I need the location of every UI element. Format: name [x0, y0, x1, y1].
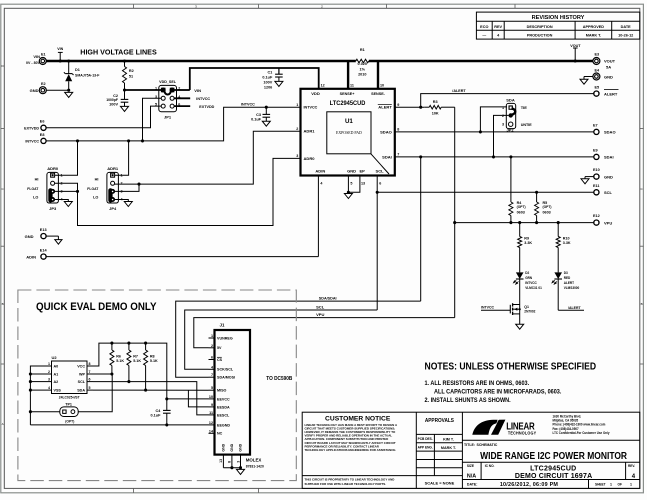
J1 pin 11 EESCL [209, 414, 215, 416]
svg-text:FLOAT: FLOAT [27, 187, 39, 191]
terminal E11 SCL [594, 190, 599, 195]
high voltage bus wire [46, 60, 356, 62]
connector J1 [215, 330, 251, 455]
svg-text:OF: OF [618, 482, 622, 486]
svg-text:D1: D1 [75, 68, 80, 72]
svg-text:NC: NC [217, 432, 223, 436]
svg-text:GND: GND [239, 443, 243, 451]
jumper JP3 ADR0 [47, 172, 59, 203]
svg-text:11: 11 [209, 411, 213, 415]
svg-text:VCC: VCC [77, 364, 85, 368]
svg-text:2010: 2010 [358, 73, 366, 77]
svg-text:SCL: SCL [316, 304, 325, 309]
svg-text:VLMS3000: VLMS3000 [564, 286, 580, 290]
svg-text:ADR1: ADR1 [107, 166, 119, 171]
svg-text:U2: U2 [52, 355, 58, 360]
svg-text:VLMC31 01: VLMC31 01 [525, 286, 542, 290]
svg-text:SENSE-: SENSE- [371, 91, 385, 96]
svg-text:INTVCC: INTVCC [196, 96, 210, 101]
terminal E1 VIN [39, 58, 46, 65]
svg-text:7: 7 [89, 370, 91, 374]
J1 pin 9 EESDA [209, 406, 215, 408]
svg-text:TO DC590B: TO DC590B [266, 376, 292, 383]
svg-text:(OPT): (OPT) [65, 419, 74, 423]
SCL row [376, 176, 378, 311]
svg-text:SIZE: SIZE [467, 464, 474, 468]
svg-text:E5: E5 [595, 85, 600, 89]
svg-text:EESDA: EESDA [217, 405, 230, 409]
svg-text:24LC025-I/ST: 24LC025-I/ST [59, 395, 81, 399]
svg-text:HIGH VOLTAGE LINES: HIGH VOLTAGE LINES [80, 47, 157, 56]
SDA/SDAI rail [176, 301, 421, 377]
svg-text:INTVCC: INTVCC [525, 281, 537, 285]
svg-text:9: 9 [211, 403, 213, 407]
svg-text:GND: GND [604, 74, 613, 79]
svg-text:10/26/2012, 06:09 PM: 10/26/2012, 06:09 PM [500, 482, 559, 488]
svg-text:/ALERT: /ALERT [568, 306, 581, 310]
jumper JP1 VDD_SEL [159, 85, 177, 111]
terminal E9 SDAI [594, 154, 599, 159]
svg-text:E1: E1 [41, 53, 46, 57]
svg-text:QUICK EVAL DEMO ONLY: QUICK EVAL DEMO ONLY [36, 301, 157, 313]
svg-text:TECHNOLOGY: TECHNOLOGY [508, 430, 536, 435]
svg-text:2: 2 [211, 344, 213, 348]
svg-text:SDAI: SDAI [382, 154, 392, 159]
svg-text:—: — [482, 34, 486, 38]
resistor R10 3.3K [557, 221, 560, 224]
svg-text:GND: GND [347, 169, 356, 174]
svg-text:5: 5 [211, 386, 213, 390]
svg-text:B: B [2, 302, 4, 306]
svg-text:0V - 80V: 0V - 80V [26, 61, 40, 65]
svg-text:ALL CAPACITORS ARE IN MICROFAR: ALL CAPACITORS ARE IN MICROFARADS, 0603. [434, 389, 562, 395]
test point TP1 (OPT) [60, 407, 78, 417]
svg-text:JP2: JP2 [506, 127, 514, 132]
svg-text:CS: CS [217, 358, 223, 362]
IC U2 24LC025-I/ST [52, 361, 88, 394]
EEVCC row [167, 398, 209, 400]
svg-text:R1: R1 [360, 48, 365, 52]
VPU rail [194, 318, 455, 348]
svg-text:SDAO: SDAO [604, 130, 616, 135]
resistor R6 5.1K [111, 343, 113, 350]
svg-text:1: 1 [211, 334, 213, 338]
svg-text:VIN: VIN [57, 47, 63, 51]
svg-text:HI: HI [35, 178, 39, 182]
op-amp U1 LTC2945CUD [301, 89, 395, 176]
JP1 shunt pins 1-2 [161, 88, 166, 93]
svg-text:R8: R8 [150, 354, 155, 358]
svg-text:SCL: SCL [376, 169, 385, 174]
svg-text:HI: HI [95, 178, 99, 182]
svg-text:1206: 1206 [264, 85, 272, 89]
svg-text:/ALERT: /ALERT [452, 88, 466, 93]
svg-text:ADIN: ADIN [315, 169, 325, 174]
svg-text:IC NO.: IC NO. [485, 464, 495, 468]
svg-text:SMAJ75A-13-F: SMAJ75A-13-F [75, 73, 100, 77]
svg-text:REV: REV [494, 25, 502, 29]
J1 pin 5 MISO [209, 389, 215, 391]
resistor R5 (OPT) 0603 [536, 192, 538, 202]
SDA row to MISO / EESDA [93, 389, 209, 391]
svg-text:MARK T.: MARK T. [586, 34, 601, 38]
svg-text:REV.: REV. [628, 464, 635, 468]
svg-text:TIE: TIE [521, 105, 528, 110]
svg-text:GND: GND [30, 88, 39, 93]
svg-text:5A: 5A [606, 65, 611, 70]
resistor R3 10K [429, 105, 441, 109]
svg-text:0.1uF: 0.1uF [262, 75, 273, 79]
JP1 pin5 to EXTVDD/E6 [46, 106, 161, 128]
J1 pin 10 EEVCC [209, 398, 215, 400]
terminal E14 ADIN [41, 254, 46, 259]
svg-text:INTVCC: INTVCC [481, 305, 494, 309]
svg-text:DATE: DATE [621, 25, 632, 29]
JP2 pin2 to SDAI row [494, 115, 509, 156]
svg-text:VOUT: VOUT [604, 59, 616, 64]
svg-text:0.1uF: 0.1uF [150, 413, 161, 417]
svg-text:5: 5 [89, 386, 91, 390]
jumper JP2 SDA TIE/UNTIE [506, 103, 515, 128]
U1 ADIN pin4 riser [317, 176, 319, 257]
svg-text:10: 10 [380, 83, 384, 87]
svg-text:EEGND: EEGND [217, 423, 230, 427]
svg-text:3: 3 [502, 123, 504, 127]
svg-text:FLOAT: FLOAT [87, 187, 99, 191]
svg-text:GND: GND [222, 443, 226, 451]
svg-text:INTVCC: INTVCC [25, 140, 39, 144]
svg-text:4: 4 [48, 386, 50, 390]
svg-text:INTVCC: INTVCC [241, 101, 255, 106]
svg-text:E10: E10 [593, 168, 600, 172]
svg-text:INTVCC: INTVCC [304, 104, 318, 109]
svg-text:5.1K: 5.1K [133, 359, 141, 363]
svg-text:6: 6 [211, 356, 213, 360]
U2 left rail to EEGND [30, 366, 45, 425]
svg-text:VSS: VSS [54, 388, 62, 392]
svg-text:11: 11 [350, 83, 354, 87]
svg-text:REVISION HISTORY: REVISION HISTORY [532, 15, 585, 21]
Linear Technology logo [472, 420, 497, 435]
svg-text:R3: R3 [433, 100, 438, 104]
resistor R1 0.020 1% 2010 sense [356, 59, 369, 63]
JP1 pin3 to INTVCC rail [143, 98, 162, 141]
svg-text:CUSTOMER NOTICE: CUSTOMER NOTICE [325, 416, 391, 423]
svg-text:10K: 10K [432, 111, 439, 115]
svg-text:EP: EP [359, 169, 365, 174]
svg-text:LTC2945CUD: LTC2945CUD [530, 466, 576, 473]
svg-text:A: A [2, 422, 4, 426]
terminal E6 EXTVDD [41, 125, 46, 130]
ground [64, 202, 72, 207]
svg-text:SCK/SCL: SCK/SCL [217, 368, 234, 372]
svg-text:MISO: MISO [217, 388, 226, 392]
svg-text:JP1: JP1 [164, 115, 172, 120]
svg-text:SCALE = NONE: SCALE = NONE [425, 480, 455, 485]
svg-text:SENSE+: SENSE+ [340, 91, 355, 96]
svg-text:3.3K: 3.3K [524, 241, 532, 245]
svg-text:E7: E7 [593, 124, 598, 128]
svg-text:E13: E13 [40, 228, 47, 232]
svg-text:VDD_SEL: VDD_SEL [159, 80, 177, 84]
svg-text:7: 7 [211, 373, 213, 377]
svg-text:D2: D2 [525, 271, 529, 275]
svg-text:RED: RED [564, 276, 571, 280]
ground [55, 240, 62, 245]
TP1 riser to WP row [78, 374, 112, 412]
svg-text:1: 1 [630, 482, 632, 486]
J1 pin 4 SCK/SCL [209, 368, 215, 370]
svg-text:WP: WP [79, 372, 85, 376]
svg-text:A2: A2 [54, 380, 59, 384]
J1 pin 1 VUNREG [209, 337, 215, 339]
svg-text:DEMO CIRCUIT 1697A: DEMO CIRCUIT 1697A [515, 473, 593, 480]
svg-text:GND: GND [25, 234, 34, 239]
node R2/C2/JP1 [123, 88, 126, 91]
svg-text:13: 13 [361, 181, 365, 185]
VIN (VDD) wire to U1 pin12 [190, 68, 319, 90]
svg-text:0.1uF: 0.1uF [251, 118, 262, 122]
capacitor C2 1000pF 100V [124, 90, 126, 99]
svg-text:VPU: VPU [316, 312, 324, 317]
terminal E2 GND [39, 87, 46, 94]
svg-text:SDAI: SDAI [604, 155, 614, 160]
svg-text:LO: LO [33, 195, 38, 199]
svg-text:5V: 5V [217, 346, 222, 350]
svg-text:GND: GND [230, 443, 234, 451]
svg-text:8: 8 [228, 461, 232, 463]
svg-text:ADR1: ADR1 [304, 129, 316, 134]
svg-text:ALERT: ALERT [564, 281, 574, 285]
svg-text:APPROVED: APPROVED [583, 25, 605, 29]
svg-text:R2: R2 [129, 69, 134, 73]
svg-text:E3: E3 [595, 52, 600, 56]
SDA/SDAI riser down [420, 157, 422, 301]
svg-text:R10: R10 [563, 237, 570, 241]
terminal E13 GND [41, 234, 46, 239]
svg-text:8: 8 [89, 362, 91, 366]
svg-text:APP ENG.: APP ENG. [418, 446, 433, 450]
svg-text:51: 51 [129, 74, 133, 78]
J1 pin 12 EEGND [209, 424, 215, 426]
svg-text:ADR0: ADR0 [304, 156, 316, 161]
ground [516, 324, 524, 329]
svg-text:SCHEMATIC: SCHEMATIC [477, 443, 498, 447]
svg-text:3: 3 [296, 154, 298, 158]
SCL row to EESCL [93, 382, 209, 415]
svg-text:2. INSTALL SHUNTS AS SHOWN.: 2. INSTALL SHUNTS AS SHOWN. [425, 398, 512, 404]
svg-text:ECO: ECO [480, 25, 488, 29]
svg-text:1. ALL RESISTORS ARE IN OHMS,: 1. ALL RESISTORS ARE IN OHMS, 0603. [425, 381, 530, 387]
svg-text:SDAO: SDAO [380, 129, 392, 134]
svg-text:TITLE:: TITLE: [464, 443, 475, 447]
svg-text:E8: E8 [40, 133, 45, 137]
svg-text:5: 5 [350, 181, 352, 185]
svg-text:100V: 100V [263, 80, 272, 84]
ground [275, 81, 283, 86]
svg-text:EXTVDD: EXTVDD [24, 126, 39, 130]
pull-up rail + VCC riser [93, 343, 167, 399]
svg-text:VIN: VIN [33, 54, 40, 59]
resistor R7 5.1K [128, 343, 130, 350]
svg-text:12: 12 [209, 421, 213, 425]
svg-text:E2: E2 [41, 82, 46, 86]
svg-text:100V: 100V [109, 103, 118, 107]
svg-text:TP1: TP1 [65, 402, 72, 406]
svg-text:13: 13 [219, 459, 223, 463]
svg-text:2: 2 [48, 370, 50, 374]
/ALERT net + R3 [395, 106, 424, 108]
svg-text:SDA: SDA [77, 388, 85, 392]
terminal E8 INTVCC [41, 138, 46, 143]
LED D2 GRN INTVCC VLMC3101 [516, 272, 524, 279]
ground [262, 121, 270, 126]
svg-text:U1: U1 [345, 118, 353, 125]
svg-text:MARK T.: MARK T. [441, 446, 456, 450]
J1 pin 7 SDA/MOSI [209, 376, 215, 378]
svg-text:GRN: GRN [525, 276, 533, 280]
capacitor C1 0.1uF 100V 1206 [278, 68, 280, 74]
svg-text:1: 1 [502, 106, 504, 110]
transistor Q1 2N7002 [481, 309, 510, 311]
svg-text:2: 2 [296, 127, 298, 131]
svg-text:(OPT): (OPT) [543, 205, 552, 209]
diode D1 SMAJ75A-13-F [68, 61, 70, 74]
terminal E10 GND [594, 174, 599, 179]
svg-text:2N7002: 2N7002 [524, 309, 535, 313]
svg-text:3: 3 [48, 378, 50, 382]
svg-text:8: 8 [397, 128, 399, 132]
svg-text:10-26-12: 10-26-12 [618, 34, 633, 38]
svg-text:R6: R6 [116, 354, 121, 358]
QUICK EVAL DEMO ONLY dashed box [18, 290, 296, 481]
svg-text:0603: 0603 [543, 211, 551, 215]
svg-text:1: 1 [48, 362, 50, 366]
svg-text:(OPT): (OPT) [517, 205, 526, 209]
SDAI row [395, 156, 594, 158]
svg-text:A1: A1 [54, 372, 59, 376]
terminal E7 SDAO [594, 129, 599, 134]
terminal E4 GND [593, 73, 600, 80]
WP row [93, 373, 112, 375]
svg-text:5.1K: 5.1K [116, 359, 124, 363]
svg-text:SHEET: SHEET [595, 482, 606, 486]
capacitor C4 0.1uF [166, 399, 168, 411]
ADR0 net JP3 to U1 [55, 158, 301, 225]
svg-text:SDA: SDA [506, 97, 515, 102]
svg-text:SDA/SDAI: SDA/SDAI [319, 295, 337, 300]
svg-text:N/A: N/A [467, 473, 476, 479]
svg-text:12: 12 [321, 83, 325, 87]
svg-text:WIDE RANGE I2C POWER MONITOR: WIDE RANGE I2C POWER MONITOR [480, 450, 627, 461]
svg-text:3.3K: 3.3K [563, 241, 571, 245]
svg-text:LTC Confidential-For Customer: LTC Confidential-For Customer Use Only [553, 431, 610, 435]
svg-text:0603: 0603 [517, 211, 525, 215]
EEGND row [30, 424, 208, 426]
svg-text:R9: R9 [524, 237, 529, 241]
svg-text:VPU: VPU [604, 220, 612, 225]
svg-text:2: 2 [121, 182, 123, 186]
svg-text:VIN: VIN [194, 88, 201, 93]
ground [121, 106, 129, 111]
JP1 net stubs [174, 89, 190, 91]
svg-text:E9: E9 [593, 149, 598, 153]
terminal E5 ALERT [594, 91, 599, 96]
ground [581, 179, 589, 184]
svg-text:E6: E6 [40, 120, 45, 124]
svg-text:DATE:: DATE: [467, 483, 478, 487]
svg-text:E11: E11 [593, 184, 600, 188]
ground [237, 469, 245, 474]
svg-text:1: 1 [610, 482, 612, 486]
svg-text:ADR0: ADR0 [47, 166, 59, 171]
svg-text:1: 1 [296, 103, 298, 107]
ground [580, 79, 588, 84]
INTVCC rail [46, 107, 301, 141]
svg-text:6: 6 [379, 181, 381, 185]
svg-text:ALERT: ALERT [378, 105, 392, 110]
svg-text:DESCRIPTION: DESCRIPTION [527, 25, 553, 29]
svg-text:3: 3 [236, 461, 240, 463]
U1 GND/EP pins to ground [347, 176, 349, 193]
svg-text:1: 1 [155, 87, 157, 91]
resistor R4 (OPT) 0603 [510, 157, 512, 202]
VPU row [453, 221, 456, 224]
svg-text:PRODUCTION: PRODUCTION [527, 34, 553, 38]
svg-text:SCL: SCL [604, 190, 613, 195]
resistor R8 5.1K [145, 343, 147, 350]
svg-text:KIM T.: KIM T. [443, 438, 454, 442]
svg-text:7: 7 [397, 153, 399, 157]
svg-text:NOTES: UNLESS OTHERWISE SPECIF: NOTES: UNLESS OTHERWISE SPECIFIED [425, 361, 597, 372]
SCL rail [185, 310, 378, 369]
svg-text:SCL: SCL [78, 380, 86, 384]
title block [302, 412, 640, 488]
J1 pin 6 CS [209, 359, 215, 361]
svg-text:PCB DES.: PCB DES. [418, 437, 433, 441]
terminal E3 VOUT 5A [593, 58, 600, 65]
svg-text:E14: E14 [40, 249, 48, 253]
svg-text:MOLEX: MOLEX [246, 457, 262, 462]
svg-text:UNTIE: UNTIE [521, 123, 532, 127]
svg-text:ALERT: ALERT [604, 91, 618, 96]
svg-text:EEVCC: EEVCC [217, 397, 230, 401]
J1 pin 2 5V [209, 347, 215, 349]
svg-text:B: B [641, 302, 643, 306]
svg-text:JP3: JP3 [49, 206, 57, 211]
svg-text:TECHNOLOGY APPLICATIONS ENGINE: TECHNOLOGY APPLICATIONS ENGINEERING FOR … [305, 448, 397, 452]
J1 pin 14 NC [209, 432, 215, 434]
svg-text:LTC2945CUD: LTC2945CUD [330, 101, 366, 107]
svg-text:0.020: 0.020 [358, 62, 368, 66]
svg-text:1%: 1% [360, 67, 366, 71]
svg-text:APPROVALS: APPROVALS [425, 418, 455, 424]
svg-text:A0: A0 [54, 364, 59, 368]
svg-text:VDD: VDD [311, 91, 320, 96]
J1 GND pins 13/8/3 [222, 455, 224, 468]
svg-text:E12: E12 [593, 214, 600, 218]
svg-text:5.1K: 5.1K [150, 359, 158, 363]
svg-text:6: 6 [89, 378, 91, 382]
terminal E12 VPU [594, 220, 599, 225]
ADR1 net JP4 to U1 [115, 131, 301, 191]
svg-text:EXPOSED PAD: EXPOSED PAD [336, 131, 362, 135]
svg-text:VUNREG: VUNREG [217, 336, 233, 340]
resistor R2 51 [124, 61, 126, 67]
capacitor C3 0.1uF [265, 106, 268, 109]
svg-text:SUPPLIED FOR USE WITH LINEAR T: SUPPLIED FOR USE WITH LINEAR TECHNOLOGY … [305, 482, 387, 486]
svg-text:EESCL: EESCL [217, 413, 230, 417]
